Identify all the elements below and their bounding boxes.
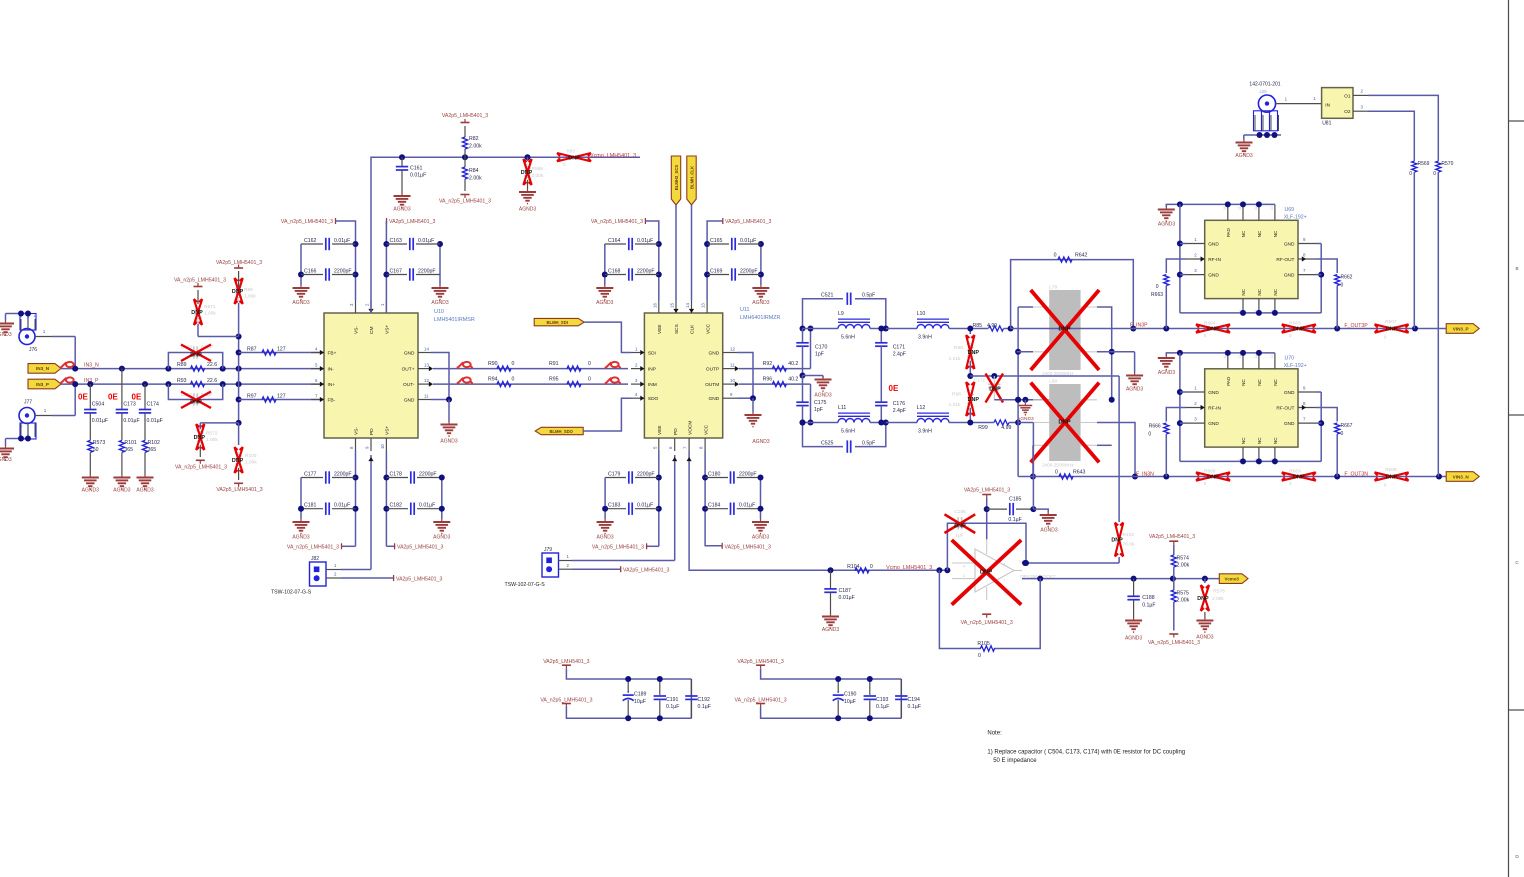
wire R92 up to filter top <box>808 326 814 369</box>
power VA2p5 at R574 <box>1149 534 1195 555</box>
capacitor C188 <box>1127 579 1155 618</box>
capacitor C189 <box>623 676 647 721</box>
wire bank E left rail <box>298 478 304 520</box>
svg-text:IN-: IN- <box>328 367 335 373</box>
svg-text:0: 0 <box>512 361 515 367</box>
svg-text:DNP: DNP <box>1197 596 1209 602</box>
sheet border right edge <box>1509 0 1524 877</box>
DNP X over C503 <box>181 345 211 362</box>
svg-text:AGND3: AGND3 <box>596 300 613 306</box>
capacitor C165 <box>707 238 761 250</box>
svg-text:DNP: DNP <box>989 387 1001 393</box>
capacitor C168 <box>605 268 659 280</box>
svg-text:VCC: VCC <box>703 424 709 435</box>
svg-text:F_OUT3N: F_OUT3N <box>1344 471 1368 477</box>
svg-text:R569: R569 <box>1418 161 1430 167</box>
svg-text:13: 13 <box>1270 206 1274 210</box>
capacitor C164 <box>605 238 659 250</box>
svg-text:C166: C166 <box>304 269 317 275</box>
svg-text:LMH6401IRMZR: LMH6401IRMZR <box>740 315 781 321</box>
svg-text:0E: 0E <box>132 392 142 401</box>
svg-text:R82: R82 <box>469 136 479 142</box>
wire J29 shield ground bus <box>1244 132 1281 140</box>
resistor R102 <box>142 440 160 475</box>
svg-text:0.01µF: 0.01µF <box>147 418 163 424</box>
svg-text:C189: C189 <box>634 691 647 697</box>
power VA2p5 above C185 <box>964 487 1010 539</box>
ground tap filter mid <box>800 373 832 399</box>
svg-text:0.5pF: 0.5pF <box>862 440 875 446</box>
svg-text:12: 12 <box>424 378 429 383</box>
resistor R663 <box>1151 259 1186 329</box>
power VA2p5 label bank H <box>705 543 771 551</box>
resistor R643 <box>1055 470 1086 480</box>
capacitor C190 <box>833 676 857 721</box>
svg-text:SCS: SCS <box>674 324 680 334</box>
wire bank G left rail <box>602 478 608 520</box>
svg-text:C163: C163 <box>390 238 403 244</box>
net flag VIN3_N <box>1446 472 1479 482</box>
inductor L12 <box>886 405 988 435</box>
power VA2p5 label bank B <box>386 218 435 244</box>
svg-text:DNP: DNP <box>232 458 244 464</box>
net label IN3_P <box>84 378 99 384</box>
svg-text:AGND3: AGND3 <box>519 207 536 213</box>
wire J77 shield to ground <box>6 436 32 446</box>
svg-text:10µF: 10µF <box>634 699 646 705</box>
svg-text:0: 0 <box>1433 171 1436 177</box>
svg-text:DNP: DNP <box>954 524 966 530</box>
net flag IN3_P <box>28 379 61 389</box>
svg-text:VA_n2p5_LMH5401_3: VA_n2p5_LMH5401_3 <box>287 545 339 551</box>
wire L79 right pins <box>1097 307 1135 403</box>
wire CM to bias line <box>371 154 640 313</box>
wire node R88 C172 <box>970 373 1119 379</box>
svg-text:VCC: VCC <box>705 323 711 334</box>
U11 left pins SDI INP INM SDO <box>631 347 659 403</box>
label 0E for C504 <box>78 392 88 401</box>
svg-text:0: 0 <box>512 377 515 383</box>
DNP resistor R86 <box>232 271 256 337</box>
net flag BLMH_SDO <box>535 427 583 434</box>
svg-text:4.99: 4.99 <box>1001 425 1011 431</box>
resistor R87 <box>239 347 324 356</box>
svg-text:0.01µF: 0.01µF <box>739 503 755 509</box>
svg-text:VA_n2p5_LMH5401_3: VA_n2p5_LMH5401_3 <box>592 545 644 551</box>
svg-text:DNP: DNP <box>191 310 203 316</box>
svg-text:2200pF: 2200pF <box>740 269 758 275</box>
svg-text:16: 16 <box>652 303 657 308</box>
svg-text:2200pF: 2200pF <box>418 269 436 275</box>
wire R96 down to filter bottom <box>808 384 814 425</box>
wire U70 left rail <box>1177 353 1186 462</box>
net label IN3_N <box>84 362 99 368</box>
svg-text:VIN3_N: VIN3_N <box>1453 474 1470 479</box>
power VA_n2p5 under U42 <box>961 614 1013 626</box>
ground tap at L80 node <box>1017 400 1034 422</box>
svg-text:VA2p5_LMH5401_3: VA2p5_LMH5401_3 <box>543 659 589 665</box>
svg-text:L79: L79 <box>1049 285 1057 291</box>
svg-text:U69: U69 <box>1285 207 1295 213</box>
transformer L80 DNP ghost <box>1033 379 1097 468</box>
wire bank C rails <box>602 241 662 300</box>
svg-text:0: 0 <box>1204 481 1207 486</box>
J82 pin2 wire to VA2p5 <box>326 572 442 583</box>
capacitor C167 <box>386 268 440 280</box>
svg-text:AGND3: AGND3 <box>1040 527 1057 533</box>
U70 bottom pins NC NC NC <box>1238 437 1278 462</box>
svg-text:R102: R102 <box>148 440 161 446</box>
svg-text:Note:: Note: <box>987 731 1002 737</box>
svg-text:C193: C193 <box>876 697 889 703</box>
svg-text:0: 0 <box>1148 432 1151 438</box>
svg-text:L10: L10 <box>917 311 926 317</box>
ground AGND3 under R101 <box>113 475 130 494</box>
resistor R82 <box>462 126 482 157</box>
wire R643 bypass line F_IN3N <box>1018 476 1133 478</box>
U11 bottom pins VEE PD VOCM VCC <box>652 421 709 451</box>
DNP resistor R103 <box>1111 376 1134 563</box>
svg-text:IN+: IN+ <box>328 382 336 388</box>
svg-text:AGND3: AGND3 <box>1158 370 1175 376</box>
diff pair marker on IN3_P <box>60 377 76 383</box>
svg-text:R88: R88 <box>954 345 963 351</box>
svg-text:0E: 0E <box>78 392 88 401</box>
connector J77 <box>19 400 52 424</box>
ground AGND3 under C161 <box>393 193 410 213</box>
svg-text:VA_n2p5_LMH5401_3: VA_n2p5_LMH5401_3 <box>1148 640 1200 646</box>
svg-text:0.01µF: 0.01µF <box>419 503 435 509</box>
svg-text:INM: INM <box>648 382 657 388</box>
svg-text:GND: GND <box>1208 242 1219 248</box>
wire U70 bottom loop <box>1180 458 1321 464</box>
ground AGND3 bank G <box>596 519 613 541</box>
U10 bottom pins VS- PD VS+ <box>349 426 391 451</box>
svg-text:0E: 0E <box>889 384 899 393</box>
svg-text:1pF: 1pF <box>815 352 824 358</box>
wire R571 R86 join <box>198 336 239 338</box>
svg-text:J29: J29 <box>1259 89 1267 94</box>
U10 left pins FB+ IN- IN+ FB- <box>311 347 337 404</box>
svg-text:VS-: VS- <box>354 427 360 435</box>
svg-text:PAD: PAD <box>1226 228 1231 238</box>
svg-text:2.00k: 2.00k <box>469 144 482 150</box>
power VA_n2p5 under R575 <box>1148 634 1200 646</box>
net flag Vcmo3 <box>1219 574 1248 584</box>
DNP capacitor C502 ghost <box>181 392 213 406</box>
svg-text:C168: C168 <box>608 269 621 275</box>
svg-text:10µF: 10µF <box>844 699 856 705</box>
svg-text:R608: R608 <box>1385 467 1397 473</box>
ground AGND3 bank F <box>433 519 450 541</box>
svg-text:0.1µF: 0.1µF <box>908 704 921 710</box>
svg-text:0: 0 <box>1054 253 1057 259</box>
DNP X over L79 <box>1031 290 1099 370</box>
svg-text:IN: IN <box>1325 103 1330 109</box>
svg-text:C186: C186 <box>954 509 966 515</box>
resistor R667 <box>1316 408 1353 477</box>
svg-text:DNP: DNP <box>1386 475 1398 481</box>
power VA_n2p5 label bank C <box>591 218 659 244</box>
svg-text:R576: R576 <box>1213 589 1225 595</box>
U10 right pins GND OUT+ OUT- GND <box>402 347 433 404</box>
svg-text:VA2p5_LMH5401_3: VA2p5_LMH5401_3 <box>623 568 669 574</box>
svg-text:R90: R90 <box>488 361 498 367</box>
svg-text:VA_n2p5_LMH5401_3: VA_n2p5_LMH5401_3 <box>439 199 491 205</box>
svg-text:0: 0 <box>1341 283 1344 289</box>
capacitor C181 <box>301 503 356 515</box>
DNP resistor R572 <box>194 423 219 457</box>
wire through line F_IN3P <box>1011 328 1134 330</box>
ground AGND3 bank A <box>292 285 309 306</box>
svg-text:3.9nH: 3.9nH <box>918 335 932 341</box>
power VA_n2p5 at R84 <box>439 195 491 205</box>
svg-text:OUTM: OUTM <box>705 382 719 388</box>
svg-text:C179: C179 <box>608 472 621 478</box>
wire U69 top ground bus <box>1166 201 1275 207</box>
svg-text:C178: C178 <box>390 472 403 478</box>
DNP X over C186 <box>945 514 976 533</box>
svg-text:0.01µF: 0.01µF <box>123 418 139 424</box>
svg-text:R87: R87 <box>247 347 257 353</box>
svg-text:C171: C171 <box>893 345 906 351</box>
svg-text:0: 0 <box>1204 333 1207 338</box>
resistor R105 feedback <box>939 570 1040 659</box>
splitter U81 box <box>1322 88 1353 127</box>
ground AGND3 under C187 <box>822 614 839 634</box>
svg-text:C188: C188 <box>1142 595 1155 601</box>
resistor R91 <box>549 361 591 371</box>
U70 top pins PAD NC NC NC <box>1223 353 1278 386</box>
svg-text:B: B <box>1515 266 1518 271</box>
DNP resistor R669 <box>1282 469 1316 487</box>
svg-text:U11: U11 <box>740 307 750 313</box>
wire bank H left rail <box>702 451 708 546</box>
capacitor C166 <box>301 268 356 280</box>
svg-text:R96: R96 <box>763 377 773 383</box>
svg-text:1) Replace capacitor ( C504,: 1) Replace capacitor ( C504, C173, C174)… <box>987 749 1185 755</box>
wire R642 bypass <box>1011 260 1137 332</box>
svg-text:R89: R89 <box>177 362 187 368</box>
svg-text:C164: C164 <box>608 238 621 244</box>
diff pair marker on IN3_N <box>60 362 76 368</box>
svg-text:O1: O1 <box>1344 94 1351 100</box>
ground AGND3 at U10 output side <box>440 422 457 445</box>
svg-text:U81: U81 <box>1322 121 1331 127</box>
wire IN3_P line <box>61 381 324 387</box>
wire L80 mid left stub <box>1018 423 1036 480</box>
svg-text:365: 365 <box>124 447 133 453</box>
DNP capacitor C186 <box>947 509 1026 570</box>
svg-text:13: 13 <box>424 363 429 368</box>
svg-text:AGND3: AGND3 <box>440 439 457 445</box>
capacitor C184 <box>705 503 758 515</box>
capacitor C173 <box>116 369 140 441</box>
power rails cap group 1 <box>540 659 691 718</box>
svg-text:365: 365 <box>148 447 157 453</box>
svg-text:+: + <box>627 689 630 694</box>
svg-text:DNP: DNP <box>1111 538 1123 544</box>
svg-text:PD: PD <box>369 428 375 435</box>
svg-text:50: 50 <box>93 447 99 453</box>
svg-text:VA2p5_LMH5401_3: VA2p5_LMH5401_3 <box>737 659 783 665</box>
svg-text:GND: GND <box>1284 390 1295 396</box>
svg-text:R663: R663 <box>1151 292 1163 298</box>
svg-text:0.01µF: 0.01µF <box>92 418 108 424</box>
svg-text:AGND3: AGND3 <box>822 627 839 633</box>
svg-text:AGND3: AGND3 <box>1235 153 1252 159</box>
svg-text:VA2p5_LMH5401_3: VA2p5_LMH5401_3 <box>964 487 1010 493</box>
DNP resistor R571 <box>191 290 216 337</box>
capacitor C169 <box>707 268 761 280</box>
connector J76 <box>19 329 52 354</box>
resistor R104 <box>847 564 873 573</box>
svg-text:1.00k: 1.00k <box>245 460 257 466</box>
svg-text:2: 2 <box>21 425 23 429</box>
net flag BLMH3_SCS <box>671 156 680 205</box>
inductor L11 <box>803 405 882 435</box>
ground AGND3 bank C <box>596 285 613 306</box>
svg-text:DNP: DNP <box>1207 327 1219 333</box>
svg-text:C177: C177 <box>304 472 317 478</box>
svg-text:LMH5401IRMSR: LMH5401IRMSR <box>434 317 475 323</box>
wire U11 GND pins to ground <box>737 353 756 413</box>
svg-text:R572: R572 <box>206 431 218 437</box>
svg-text:VA_n2p5_LMH5401_3: VA_n2p5_LMH5401_3 <box>175 464 227 470</box>
svg-text:0.01µF: 0.01µF <box>637 503 653 509</box>
svg-text:NC: NC <box>1273 437 1278 444</box>
svg-text:GND: GND <box>1284 273 1295 279</box>
svg-text:DNP: DNP <box>568 155 580 161</box>
U70 left pins GND RF-IN GND <box>1186 386 1222 428</box>
wire bank F left rail <box>383 451 389 546</box>
svg-text:R571: R571 <box>204 304 216 310</box>
wire OUT- line <box>433 383 628 385</box>
svg-text:R101: R101 <box>124 440 137 446</box>
svg-text:0.01µF: 0.01µF <box>334 503 350 509</box>
net label F_IN3N <box>1136 472 1154 478</box>
wire bank B rails <box>383 241 443 313</box>
svg-text:DNP: DNP <box>1293 475 1305 481</box>
svg-text:GND: GND <box>404 398 415 404</box>
J29 shield pins <box>1254 111 1279 131</box>
svg-text:VA2p5_LMH5401_3: VA2p5_LMH5401_3 <box>442 113 488 119</box>
capacitor C525 bridge <box>800 420 889 453</box>
svg-text:0: 0 <box>588 361 591 367</box>
svg-text:70.0k: 70.0k <box>1123 542 1135 548</box>
power VA2p5 label bank F <box>386 543 443 550</box>
svg-text:OUTP: OUTP <box>706 367 719 373</box>
svg-text:R103: R103 <box>1123 532 1135 538</box>
capacitor C174 <box>139 384 163 440</box>
svg-text:C525: C525 <box>821 440 834 446</box>
ground AGND3 at L79 right <box>1126 373 1143 393</box>
svg-text:0: 0 <box>1341 431 1344 437</box>
inductor L10 <box>886 311 988 341</box>
wire J76 shield to ground <box>6 311 32 321</box>
power VA_n2p5 label bank E <box>287 543 356 550</box>
svg-text:AGND3: AGND3 <box>752 300 769 306</box>
wire SCS flag to U11 <box>675 205 677 300</box>
svg-text:DNP: DNP <box>968 397 980 403</box>
svg-text:1.21k: 1.21k <box>949 402 961 408</box>
net label F_IN3P <box>1130 323 1148 329</box>
capacitor C177 <box>301 471 356 483</box>
svg-text:F_OUT3P: F_OUT3P <box>1344 323 1368 329</box>
svg-text:2200pF: 2200pF <box>739 472 757 478</box>
resistor R94 <box>488 377 515 387</box>
DNP X over L80 <box>1031 383 1099 463</box>
J82 pin1 wire to U10 PD <box>326 455 374 570</box>
resistor R662 <box>1316 259 1353 329</box>
ground AGND3 under R573 <box>82 475 99 494</box>
svg-text:VIN3_P: VIN3_P <box>1453 326 1469 331</box>
connector J29 142-0701-201 <box>1249 82 1280 113</box>
wire bank A rails <box>298 241 359 300</box>
svg-text:C165: C165 <box>710 238 723 244</box>
svg-text:VEE: VEE <box>657 425 663 435</box>
svg-text:CLK: CLK <box>690 324 696 334</box>
svg-text:2200pF: 2200pF <box>334 472 352 478</box>
svg-text:VA_n2p5_LMH5401_3: VA_n2p5_LMH5401_3 <box>540 697 592 703</box>
svg-text:2.4pF: 2.4pF <box>893 408 906 414</box>
svg-text:R574: R574 <box>1177 556 1190 562</box>
svg-text:AGND3: AGND3 <box>0 332 12 338</box>
capacitor C182 <box>386 503 441 515</box>
svg-text:C180: C180 <box>708 472 721 478</box>
wire J76 pin1 to IN3_N <box>52 337 75 369</box>
svg-text:C161: C161 <box>410 166 423 172</box>
svg-text:1.00k: 1.00k <box>204 311 216 317</box>
power VA_n2p5 at R572 <box>175 460 227 470</box>
svg-text:2.00k: 2.00k <box>1177 563 1190 569</box>
diff marker OUT- a <box>457 377 473 383</box>
wire L80 drop to C185 node <box>1032 423 1034 510</box>
capacitor C171 <box>875 326 906 403</box>
resistor R642 <box>1054 253 1088 263</box>
wire F_IN3P segment <box>1133 326 1446 332</box>
svg-text:DNP: DNP <box>1293 327 1305 333</box>
resistor R101 <box>119 440 137 475</box>
svg-text:15: 15 <box>670 303 675 308</box>
svg-text:GND: GND <box>1284 421 1295 427</box>
capacitor C175 <box>796 376 826 426</box>
capacitor C194 <box>895 679 921 718</box>
svg-text:0.1µF: 0.1µF <box>1008 517 1021 523</box>
svg-text:AGND3: AGND3 <box>292 300 309 306</box>
resistor R574 <box>1171 555 1189 579</box>
svg-text:12: 12 <box>730 347 735 352</box>
svg-text:0.01µF: 0.01µF <box>418 238 434 244</box>
power VA2p5 label bank D <box>707 218 771 244</box>
svg-text:1: 1 <box>44 408 47 413</box>
wire opamp output line <box>1022 576 1219 582</box>
capacitor C180 <box>705 471 758 483</box>
svg-text:4.99: 4.99 <box>987 323 997 329</box>
power VA_n2p5 label bank G <box>592 543 659 550</box>
svg-text:NC: NC <box>1273 230 1278 237</box>
U10 top pins VS- CM VS+ <box>349 300 391 334</box>
wire VOCM to Vcmo line <box>687 451 951 573</box>
svg-text:127: 127 <box>277 394 286 400</box>
svg-text:0.01µF: 0.01µF <box>637 238 653 244</box>
svg-text:R92: R92 <box>763 361 773 367</box>
svg-text:1: 1 <box>43 329 46 334</box>
resistor R97 <box>239 394 324 403</box>
resistor R92 <box>739 361 811 371</box>
ground AGND3 at J76 <box>0 321 14 339</box>
capacitor C178 <box>386 471 441 483</box>
